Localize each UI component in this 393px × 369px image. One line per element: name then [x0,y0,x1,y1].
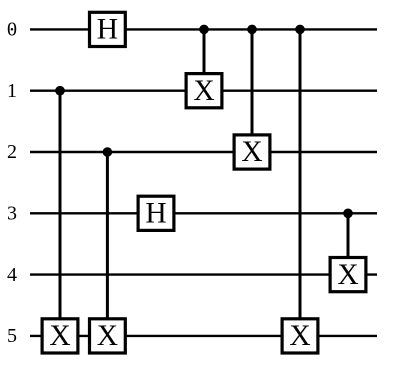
svg-text:X: X [289,320,310,352]
svg-text:2: 2 [7,141,17,163]
svg-text:X: X [193,75,214,107]
svg-text:1: 1 [7,80,17,102]
svg-text:X: X [241,136,262,168]
svg-text:H: H [97,14,118,46]
svg-text:5: 5 [7,325,17,347]
svg-text:H: H [145,198,166,230]
svg-text:X: X [49,320,70,352]
svg-text:3: 3 [7,203,17,225]
svg-text:4: 4 [7,264,17,286]
svg-text:X: X [337,259,358,291]
svg-text:X: X [97,320,118,352]
